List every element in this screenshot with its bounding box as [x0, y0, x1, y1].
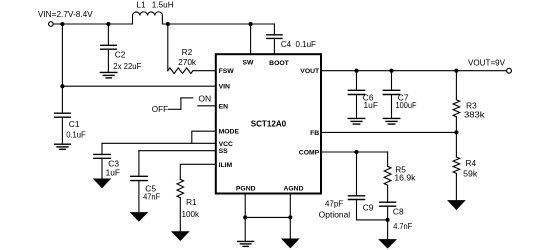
junction FB node: [454, 130, 458, 134]
resistor R2: [168, 68, 193, 74]
svg-text:16.9k: 16.9k: [394, 173, 416, 183]
svg-text:C9: C9: [363, 203, 374, 213]
ground (triangle) C5: [131, 213, 147, 221]
wire to comp ground: [387, 220, 389, 240]
svg-text:BOOT: BOOT: [269, 60, 289, 67]
capacitor C6: [356, 71, 358, 91]
node VIN input terminal: [49, 22, 54, 27]
wire R1 to ground: [179, 198, 181, 232]
wire R2 drop: [167, 24, 169, 71]
svg-text:4.7nF: 4.7nF: [393, 221, 412, 231]
wire ground connector: [245, 216, 290, 218]
svg-text:C4 0.1uF: C4 0.1uF: [281, 39, 316, 49]
ground (triangle) R4: [448, 201, 464, 210]
capacitor C9: [356, 152, 358, 196]
svg-text:100k: 100k: [182, 209, 200, 219]
ground (earth) C6: [348, 117, 364, 119]
svg-text:59k: 59k: [463, 168, 478, 178]
svg-text:R4: R4: [466, 158, 477, 168]
svg-text:EN: EN: [219, 103, 229, 110]
resistor R5: [384, 166, 391, 185]
capacitor C2: [107, 24, 109, 45]
wire R4 to ground: [455, 173, 457, 200]
inductor L1: [133, 12, 163, 24]
capacitor C4: [267, 34, 282, 36]
junction C6 tap: [354, 69, 358, 73]
ground (triangle) R1: [172, 232, 188, 241]
junction R3 tap: [454, 69, 458, 73]
ground (triangle) C3: [94, 179, 110, 188]
wire R4 top lead: [455, 132, 457, 157]
wire AGND drop: [289, 194, 291, 240]
capacitor C5: [138, 151, 140, 177]
wire SW drop: [250, 24, 252, 54]
svg-text:0.1uF: 0.1uF: [66, 129, 86, 139]
svg-text:L1: L1: [136, 0, 146, 10]
junction PGND connector: [243, 215, 247, 219]
svg-text:100uF: 100uF: [396, 100, 417, 110]
svg-text:COMP: COMP: [299, 150, 320, 157]
svg-text:383k: 383k: [464, 110, 485, 120]
capacitor C8: [380, 201, 396, 203]
resistor R1: [177, 179, 184, 197]
junction AGND connector: [288, 215, 292, 219]
svg-text:1.5uH: 1.5uH: [152, 0, 174, 10]
wire COMP row: [321, 151, 388, 153]
svg-text:SS: SS: [219, 148, 229, 155]
svg-text:SW: SW: [243, 60, 255, 67]
svg-text:47nF: 47nF: [143, 192, 160, 202]
op-amp U1 SCT12A0 IC body: [216, 54, 321, 193]
wire VOUT rail: [321, 70, 507, 72]
wire C4 drop: [273, 24, 275, 35]
svg-text:Optional: Optional: [319, 209, 351, 219]
resistor R3: [453, 100, 460, 117]
svg-text:FB: FB: [310, 130, 319, 137]
svg-text:C2: C2: [115, 50, 126, 60]
wire R5 drop: [387, 152, 389, 166]
svg-text:FSW: FSW: [219, 68, 235, 75]
ground (earth) C1: [55, 143, 71, 145]
junction VIN row: [60, 84, 64, 88]
ground (triangle) AGND: [282, 239, 298, 248]
junction SW tap: [249, 22, 253, 26]
ground (earth) C2: [100, 71, 116, 73]
EN logic annotation OFF level: [169, 108, 181, 110]
svg-text:2x 22uF: 2x 22uF: [113, 61, 141, 71]
wire top rail right of L1: [162, 23, 274, 25]
wire VIN row: [62, 85, 215, 87]
svg-text:VIN=2.7V-8.4V: VIN=2.7V-8.4V: [38, 9, 93, 19]
svg-text:C1: C1: [69, 119, 80, 129]
wire SS row: [139, 150, 216, 152]
svg-text:VOUT=9V: VOUT=9V: [468, 57, 505, 67]
junction C7 tap: [389, 69, 393, 73]
svg-text:VIN: VIN: [219, 84, 230, 91]
svg-text:OFF: OFF: [152, 104, 168, 114]
ground (earth) C7: [383, 117, 399, 119]
capacitor C7: [391, 71, 393, 91]
svg-text:AGND: AGND: [283, 185, 303, 192]
svg-text:1uF: 1uF: [106, 167, 120, 177]
wire ILIM row: [180, 164, 216, 179]
svg-text:ON: ON: [198, 93, 211, 103]
wire R2 to FSW: [193, 70, 216, 72]
junction R2 tap: [166, 22, 170, 26]
wire EN stub: [198, 105, 216, 107]
svg-text:1uF: 1uF: [364, 100, 378, 110]
svg-text:R1: R1: [186, 197, 197, 207]
svg-text:47pF: 47pF: [325, 198, 343, 208]
svg-text:MODE: MODE: [219, 129, 240, 136]
wire MODE: [192, 131, 216, 143]
junction VIN column: [60, 22, 64, 26]
wire R5 to C8: [387, 185, 389, 202]
svg-text:R2: R2: [182, 47, 193, 57]
wire VCC row: [102, 142, 216, 144]
wire VIN drop: [61, 24, 63, 86]
ground (triangle) C8/C9: [379, 240, 395, 248]
EN logic annotation rising edge: [180, 98, 182, 109]
node VOUT terminal: [507, 68, 512, 73]
resistor R4: [453, 157, 460, 173]
EN logic annotation ON level: [181, 97, 193, 99]
capacitor C1: [61, 86, 63, 113]
wire C9 bottom to C8 node: [357, 219, 388, 221]
svg-text:PGND: PGND: [236, 185, 256, 192]
capacitor C3: [101, 143, 103, 154]
svg-text:SCT12A0: SCT12A0: [251, 118, 287, 128]
svg-text:270k: 270k: [178, 57, 197, 67]
svg-text:VOUT: VOUT: [300, 68, 320, 75]
svg-text:VCC: VCC: [219, 141, 233, 148]
wire PGND drop: [244, 194, 246, 242]
svg-text:C8: C8: [393, 206, 404, 216]
wire FB row: [321, 131, 456, 133]
junction C2 tap: [106, 22, 110, 26]
wire R3 bottom lead: [455, 117, 457, 133]
junction C9 tap: [354, 150, 358, 154]
junction comp gnd node: [386, 218, 390, 222]
wire R3 top lead: [455, 71, 457, 100]
ground (earth) PGND: [238, 240, 254, 242]
svg-text:ILIM: ILIM: [219, 162, 233, 169]
wire top rail left: [53, 23, 132, 25]
